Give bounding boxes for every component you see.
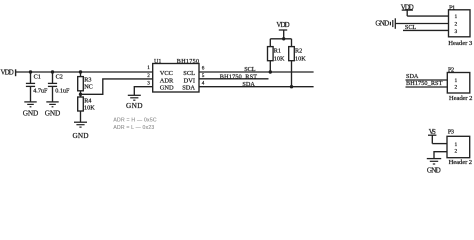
value label R4 10K	[84, 104, 95, 111]
svg-text:5: 5	[202, 73, 205, 79]
net label SCL (P1)	[405, 24, 417, 31]
svg-text:SDA: SDA	[406, 73, 419, 80]
svg-text:GND: GND	[427, 167, 441, 174]
designator P1	[449, 4, 455, 11]
svg-text:R3: R3	[84, 77, 91, 84]
net label BH1750_RST	[220, 73, 257, 80]
svg-text:Header 2: Header 2	[449, 159, 473, 166]
pin number 2 (P1)	[454, 22, 457, 28]
value label R3 NC	[84, 84, 93, 91]
value label C1 4.7uF	[33, 88, 48, 95]
pin name GND	[160, 85, 174, 92]
ground GND (R4)	[73, 122, 89, 140]
svg-text:GND: GND	[160, 85, 174, 92]
svg-text:0.1uF: 0.1uF	[55, 88, 70, 95]
connector P2 box	[447, 73, 470, 94]
node junction VDD stem	[282, 37, 285, 40]
pin number 1 (P3)	[454, 142, 457, 148]
wire pullup top	[270, 38, 291, 40]
svg-text:R2: R2	[295, 48, 302, 55]
svg-text:6: 6	[202, 66, 205, 72]
ground GND (P3)	[427, 159, 441, 175]
svg-text:GND: GND	[45, 109, 61, 118]
svg-text:Header 3: Header 3	[448, 40, 473, 47]
capacitor C1	[26, 72, 41, 102]
part name BH1750	[177, 59, 199, 65]
pin name SDA	[182, 85, 195, 92]
wire P1 pin3	[403, 29, 449, 31]
label Header 3	[448, 40, 473, 47]
svg-text:10K: 10K	[274, 55, 285, 62]
svg-text:SDA: SDA	[242, 81, 255, 88]
label Header 2 (P2)	[449, 95, 473, 102]
value label R1 10K	[274, 55, 285, 62]
wire VDD bus	[16, 71, 153, 73]
pin number 2 (P2)	[454, 85, 457, 91]
pin number 1	[147, 65, 150, 71]
label Header 2 (P3)	[449, 159, 473, 166]
pin number 4	[202, 81, 205, 87]
svg-text:Header 2: Header 2	[449, 95, 473, 102]
wire P3 pin2	[434, 152, 447, 159]
svg-text:1: 1	[454, 142, 457, 148]
svg-text:4: 4	[202, 81, 205, 87]
resistor R2	[289, 39, 303, 87]
pin number 3	[147, 80, 150, 86]
note ADR = L 0x23	[113, 125, 154, 131]
pin name VCC	[160, 70, 173, 77]
pin name ADR	[160, 78, 174, 85]
pin number 2 (P3)	[454, 148, 457, 154]
svg-text:SCL: SCL	[183, 70, 195, 77]
svg-text:2: 2	[147, 73, 150, 79]
pin number 6	[202, 66, 205, 72]
wire P2 pin1	[406, 79, 448, 81]
resistor R3	[78, 72, 92, 94]
designator P3	[448, 129, 455, 136]
resistor R4	[78, 94, 92, 122]
node junction R3	[79, 70, 82, 73]
svg-text:BH1750_RST: BH1750_RST	[220, 73, 257, 80]
svg-text:C2: C2	[56, 74, 63, 81]
pin number 1 (P2)	[454, 78, 457, 84]
svg-text:GND: GND	[126, 101, 143, 110]
svg-text:U1: U1	[154, 59, 161, 65]
designator P2	[448, 66, 454, 73]
ground GND (C2)	[45, 102, 61, 118]
svg-text:4.7uF: 4.7uF	[33, 88, 48, 95]
svg-text:10K: 10K	[295, 55, 306, 62]
pin number 5	[202, 73, 205, 79]
svg-text:3: 3	[147, 80, 150, 86]
wire ADR net	[81, 79, 153, 94]
connector P1 box	[449, 10, 471, 37]
svg-text:1: 1	[454, 14, 457, 20]
svg-text:1: 1	[147, 65, 150, 71]
svg-text:VDD: VDD	[1, 70, 14, 77]
connector P3 box	[447, 136, 470, 157]
value label R2 10K	[295, 55, 306, 62]
power VS (P3)	[428, 129, 436, 144]
svg-text:VDD: VDD	[276, 22, 289, 29]
svg-text:C1: C1	[34, 74, 41, 81]
VDD port tick	[15, 69, 17, 76]
svg-text:BH1750: BH1750	[177, 59, 199, 65]
net label SCL	[244, 66, 256, 73]
wire BH1750_RST net	[199, 78, 269, 80]
net label SDA	[242, 81, 255, 88]
svg-text:P1: P1	[449, 4, 455, 11]
node junction C2	[51, 70, 54, 73]
wire U1 GND pin3	[134, 87, 152, 96]
svg-text:ADR = L — 0x23: ADR = L — 0x23	[113, 125, 154, 131]
net label SDA (P2)	[406, 73, 419, 80]
svg-text:ADR: ADR	[160, 78, 174, 85]
svg-text:NC: NC	[84, 84, 93, 91]
net label BH1750_RST (P2)	[406, 80, 443, 87]
svg-text:GND: GND	[73, 131, 89, 140]
wire P1 pin2	[395, 23, 448, 25]
node junction R3/R4	[79, 93, 82, 96]
note ADR = H 0x5C	[113, 118, 157, 124]
wire P3 pin1	[432, 143, 447, 145]
ground GND (U1)	[126, 95, 143, 110]
svg-text:10K: 10K	[84, 104, 95, 111]
svg-text:2: 2	[454, 22, 457, 28]
wire P1 pin1	[407, 15, 448, 17]
op IC U1 BH1750 box	[153, 64, 199, 93]
node junction C1	[29, 70, 32, 73]
capacitor C2	[48, 72, 63, 102]
svg-text:SCL: SCL	[244, 66, 256, 73]
svg-text:2: 2	[454, 148, 457, 154]
pin number 3 (P1)	[454, 29, 457, 35]
wire P2 pin2	[406, 86, 448, 88]
svg-text:ADR = H — 0x5C: ADR = H — 0x5C	[113, 118, 157, 124]
power VDD (P1)	[401, 4, 414, 16]
node junction R1/SCL	[269, 70, 272, 73]
svg-text:GND: GND	[23, 109, 39, 118]
svg-text:P3: P3	[448, 129, 455, 136]
svg-text:VCC: VCC	[160, 70, 173, 77]
designator U1	[154, 59, 161, 65]
pin number 1 (P1)	[454, 14, 457, 20]
pin number 2	[147, 73, 150, 79]
power VDD (pullups)	[276, 22, 289, 39]
svg-text:DVI: DVI	[184, 78, 195, 85]
svg-text:R1: R1	[274, 48, 281, 55]
svg-text:2: 2	[454, 85, 457, 91]
ground GND (C1)	[23, 102, 39, 118]
wire SDA net	[199, 86, 314, 88]
pin name SCL	[183, 70, 195, 77]
svg-text:SDA: SDA	[182, 85, 195, 92]
pin name DVI	[184, 78, 195, 85]
value label C2 0.1uF	[55, 88, 70, 95]
wire SCL net	[199, 71, 314, 73]
svg-text:GND: GND	[375, 19, 389, 27]
svg-text:3: 3	[454, 29, 457, 35]
ground GND (P1, sideways)	[375, 18, 395, 29]
svg-text:R4: R4	[84, 97, 91, 104]
svg-text:1: 1	[454, 78, 457, 84]
svg-text:P2: P2	[448, 66, 454, 73]
resistor R1	[268, 39, 282, 72]
node junction R2/SDA	[290, 85, 293, 88]
VDD port left	[1, 70, 14, 77]
svg-text:BH1750_RST: BH1750_RST	[406, 80, 443, 87]
